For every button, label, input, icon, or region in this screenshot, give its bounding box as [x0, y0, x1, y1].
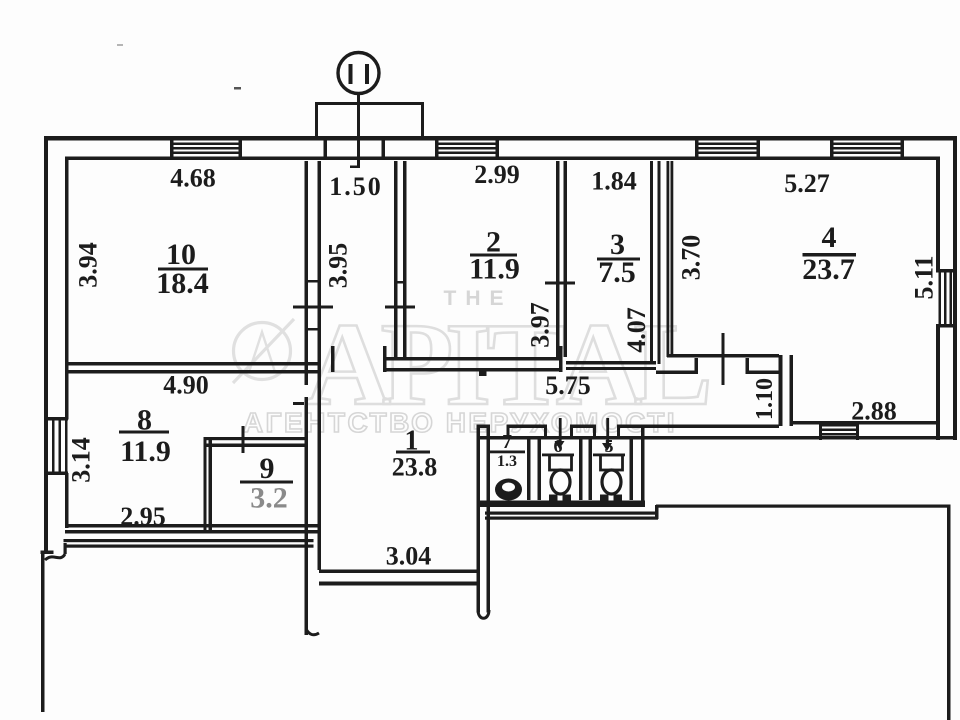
window right wall room 4 [936, 269, 957, 328]
watermark letters APITAL [305, 298, 713, 430]
svg-text:11.9: 11.9 [120, 435, 171, 468]
riser line from circle 11 [357, 95, 360, 168]
wall room10 right lower segment [305, 397, 309, 635]
room8 bottom wall [65, 524, 320, 528]
window top above room 2 [435, 139, 499, 159]
wall room2/room3 [556, 161, 560, 357]
wall left outer notch [41, 551, 54, 555]
svg-text:3.04: 3.04 [386, 542, 432, 571]
door frame corridor bottom [331, 346, 335, 372]
window top above room 4 left [695, 139, 760, 159]
wall right outer [953, 136, 957, 440]
room1 right wall [477, 425, 481, 613]
wall right inner upper [936, 157, 940, 272]
svg-text:2.88: 2.88 [851, 397, 897, 426]
wall left inner lower [65, 473, 69, 528]
speck top [117, 44, 123, 46]
svg-text:1.50: 1.50 [329, 172, 383, 201]
balcony door frame ticks [324, 139, 328, 158]
wall room3/room4 [650, 161, 653, 364]
wall left inner upper [65, 157, 69, 420]
svg-text:2.99: 2.99 [474, 160, 520, 189]
svg-text:18.4: 18.4 [156, 267, 209, 300]
wall room7/room6 [527, 439, 531, 500]
door axis line room4 south [722, 333, 725, 385]
toilet room 5 [601, 455, 623, 494]
svg-text:1.10: 1.10 [752, 378, 778, 420]
wall top outer [44, 136, 957, 141]
svg-text:5.75: 5.75 [545, 371, 591, 400]
svg-text:1.3: 1.3 [497, 453, 517, 470]
svg-text:11.9: 11.9 [469, 253, 520, 286]
svg-text:4: 4 [822, 221, 837, 254]
svg-text:3.95: 3.95 [324, 243, 353, 289]
wall break squiggle left [45, 554, 65, 560]
wall room6/room5 [579, 439, 583, 500]
svg-text:3.97: 3.97 [526, 302, 555, 348]
svg-text:9: 9 [260, 452, 275, 485]
balcony outline top [315, 102, 424, 139]
arrow into room 6 [559, 418, 562, 444]
svg-text:2.95: 2.95 [120, 502, 166, 531]
svg-text:3.94: 3.94 [74, 242, 103, 288]
wall room1 left foot hook [306, 629, 319, 635]
window left wall room 8 [44, 417, 68, 475]
wall room5 right [630, 439, 634, 500]
svg-text:5.27: 5.27 [784, 169, 830, 198]
wall room10 right inner line [318, 161, 322, 570]
sink room 7 [495, 479, 522, 501]
mid wall rooms10/8 [65, 362, 320, 366]
small rooms floor wall [479, 501, 645, 508]
wall room10 tick marks [308, 280, 318, 283]
wall top inner [65, 157, 936, 161]
svg-text:3.70: 3.70 [677, 235, 706, 281]
wall right inner lower [936, 326, 940, 440]
wall 1.10 [779, 355, 783, 426]
corridor south wall below small rooms [485, 512, 658, 515]
window top above room 10 [170, 139, 242, 159]
corridor top wall segments with door gaps [477, 425, 489, 429]
corridor boundary line down right [947, 505, 951, 720]
tick under room2 wall [479, 369, 487, 377]
svg-text:5: 5 [605, 436, 614, 456]
speck near balcony [234, 87, 241, 90]
window top above room 4 right [830, 139, 904, 159]
svg-text:7: 7 [502, 431, 512, 453]
wall corridor/room2 [394, 161, 398, 357]
mid wall room2 bottom [383, 357, 562, 361]
wall room3 bottom [566, 361, 656, 365]
wall room4 south lower segments [656, 371, 697, 375]
wall room10 right / room1 left upper line [305, 161, 309, 385]
svg-text:6: 6 [554, 436, 563, 456]
room4 bottom wall upper line [792, 421, 938, 425]
wall corridor/room2 ticks [394, 281, 407, 284]
wall left outer [44, 136, 48, 554]
wall room4 south upper line [667, 354, 779, 358]
wall room2/room3 tick [545, 282, 575, 285]
room9 left wall [204, 437, 207, 531]
svg-text:23.8: 23.8 [392, 453, 438, 482]
svg-text:4.90: 4.90 [163, 371, 209, 400]
room9 door tick [242, 426, 245, 453]
room1 right wall u-end [478, 610, 489, 618]
svg-text:7.5: 7.5 [598, 256, 636, 289]
wall below room8 [64, 539, 314, 542]
balcony threshold hatch below room4 [819, 422, 859, 440]
door frames room4 south [695, 358, 699, 374]
wall left outer lower [41, 554, 45, 712]
svg-text:4.68: 4.68 [170, 164, 216, 193]
corridor/room4 bottom lower line [477, 436, 957, 440]
arrow into room 5 [606, 418, 609, 446]
door frames small rooms [487, 425, 490, 440]
watermark logo C [233, 319, 294, 383]
svg-text:3.2: 3.2 [250, 482, 288, 515]
circle 11 [338, 53, 379, 94]
svg-text:23.7: 23.7 [802, 253, 855, 286]
corridor south jog [655, 505, 659, 519]
room9 top wall [204, 437, 305, 440]
svg-text:3.14: 3.14 [67, 437, 96, 483]
wall below room8 left stub [64, 543, 67, 554]
svg-text:АГЕНТСТВО НЕРУХОМОСТІ: АГЕНТСТВО НЕРУХОМОСТІ [243, 407, 677, 438]
room1 bottom wall [319, 570, 477, 574]
svg-text:5.11: 5.11 [910, 255, 939, 299]
corridor boundary line east [656, 505, 949, 508]
svg-text:1.84: 1.84 [591, 167, 637, 196]
mid wall room2 bottom end cap [559, 346, 563, 372]
toilet room 6 [550, 455, 572, 494]
svg-text:4.07: 4.07 [622, 307, 651, 353]
